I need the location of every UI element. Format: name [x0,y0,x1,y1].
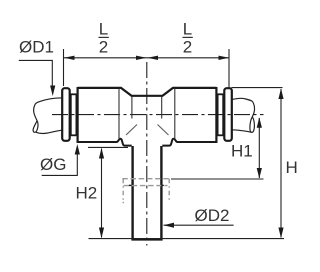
svg-text:H2: H2 [76,183,98,202]
ring left [71,94,77,135]
body outline [78,87,217,143]
H1 bottom extension [171,178,264,180]
dimension line L [64,57,229,59]
arrow ØD2 left [164,223,175,228]
leader ØG [42,152,78,175]
H2 dimension line [101,149,103,238]
arrow left end [64,56,75,60]
hidden hex left vertical [122,179,124,204]
dimension L/2 right label [183,19,193,56]
H arrow down [278,228,283,239]
H2 extension line [88,146,128,148]
internal line left inner [131,97,133,119]
stem wall left [131,146,133,240]
H2 arrow down [99,228,104,239]
diagonal right [158,125,169,136]
extension line right [228,49,230,89]
centerline horizontal [52,114,264,116]
hidden hex right vertical [168,179,170,203]
svg-text:H: H [286,158,298,177]
H1 dimension line [258,118,260,178]
baseline [89,238,285,240]
tube left break teardrop [33,121,38,133]
tube right [232,98,255,116]
diagonal left [126,125,137,136]
centerline vertical [146,62,148,246]
hidden hex top dashed [122,178,169,180]
svg-text:ØG: ØG [40,155,66,174]
internal line right inner [161,97,163,119]
arrow right end [219,56,230,60]
tube left bottom edge [36,130,62,133]
leader ØD1 [19,60,53,87]
collar left [62,88,69,141]
svg-text:ØD2: ØD2 [195,206,230,225]
svg-text:L: L [99,19,108,38]
tube right break teardrop [250,117,255,133]
stem bottom [131,238,162,240]
svg-text:ØD1: ØD1 [19,37,54,56]
H1 arrow up [257,117,262,128]
internal line right outer [174,89,176,140]
hidden hex flat stub left [129,184,132,186]
tube right bottom edge [231,130,251,132]
H2 arrow up [99,148,104,159]
ring right [218,94,224,135]
H dimension line [280,89,282,238]
stem wall right [160,146,162,240]
svg-text:2: 2 [99,38,108,57]
svg-text:2: 2 [183,38,192,57]
extension line left [63,49,65,86]
arrow ØD1 down [50,86,55,97]
arrow ØG up [75,144,80,155]
internal line left outer [118,89,120,140]
hidden hex mid dashed [124,185,168,187]
body bottom right [162,139,217,146]
H1 arrow down [257,168,262,179]
H top extension [231,87,282,89]
dimension L/2 left label [99,19,109,56]
svg-text:H1: H1 [231,141,253,160]
leader ØD2 [164,224,234,226]
H arrow up [278,89,283,100]
tube left [34,98,62,121]
svg-text:L: L [183,19,192,38]
collar right [224,88,232,141]
body bottom left [77,139,132,146]
arrow center pair [136,56,147,60]
hidden hex flat stub right [161,184,164,186]
